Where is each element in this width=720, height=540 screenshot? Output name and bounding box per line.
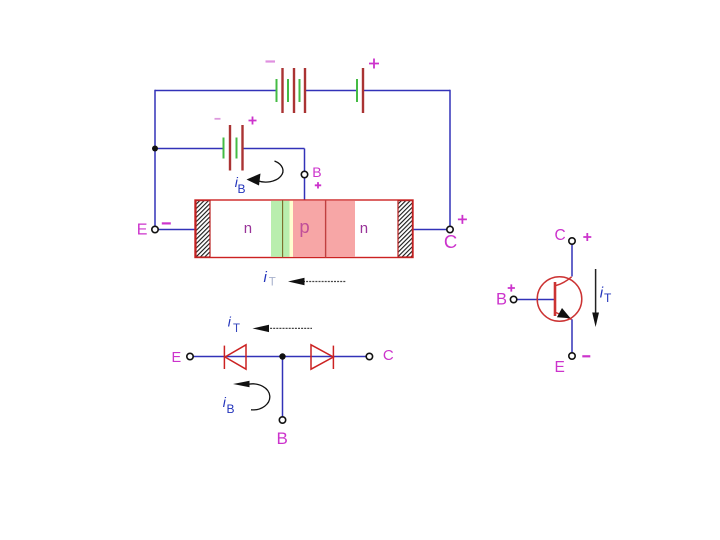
svg-text:T: T (604, 291, 612, 305)
svg-text:i: i (228, 314, 232, 330)
svg-text:B: B (496, 291, 507, 309)
svg-text:T: T (269, 277, 276, 289)
svg-text:i: i (264, 269, 268, 286)
svg-text:C: C (383, 347, 394, 364)
svg-text:n: n (244, 220, 252, 237)
svg-text:E: E (137, 221, 148, 238)
svg-text:B: B (277, 429, 288, 448)
svg-text:B: B (227, 402, 235, 416)
svg-text:n: n (360, 220, 368, 237)
svg-text:B: B (238, 182, 246, 196)
svg-text:B: B (312, 164, 321, 180)
svg-text:T: T (233, 323, 240, 335)
svg-text:p: p (299, 216, 309, 237)
svg-text:C: C (444, 231, 457, 252)
svg-text:E: E (172, 350, 182, 366)
svg-text:C: C (555, 227, 566, 244)
svg-text:E: E (555, 359, 565, 376)
